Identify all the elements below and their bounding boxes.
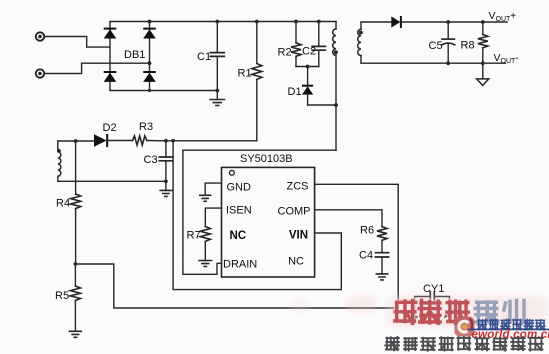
node: rail/C2 xyxy=(317,20,321,24)
ground: secondary output (open triangle) xyxy=(482,63,484,79)
resistor R1 xyxy=(256,22,258,141)
diode DB1 bottom-right xyxy=(143,71,156,73)
resistor R2 xyxy=(295,22,297,67)
input terminal J2 (AC neutral) xyxy=(36,69,44,77)
wire: VCC node to R1 bottom xyxy=(166,140,257,142)
diode D1 (clamp, pointing up) xyxy=(302,85,313,87)
wire: DRAIN pin to primary bottom xyxy=(183,150,336,274)
polarity dot: primary xyxy=(334,50,338,54)
diode D2 xyxy=(94,134,107,146)
wire: divider tap to ZCS pin xyxy=(75,184,398,308)
pin-1 marker circle xyxy=(230,170,235,175)
ground: C4 xyxy=(376,274,389,280)
capacitor C4 xyxy=(381,240,383,274)
wire: output + rail to VOUT+ xyxy=(401,21,507,23)
capacitor C5 (output, polarized) xyxy=(447,22,449,63)
wire: CY1 right lead xyxy=(434,297,449,312)
wire: D1 anode to primary bottom xyxy=(308,104,336,106)
wire: CY1 left lead xyxy=(415,297,431,316)
node: C3 ground / aux bottom xyxy=(164,179,168,183)
earth arrow: CY1 left xyxy=(411,315,418,321)
watermark text: Shepin He Tianxian Sheji Zhuanjia (RF and antenna design experts) xyxy=(385,337,399,350)
resistor R8 xyxy=(482,22,484,63)
wire: bridge right branch xyxy=(149,22,151,91)
wire: aux top to D2 xyxy=(58,140,94,142)
ground: IC GND pin xyxy=(199,195,212,201)
underline xyxy=(468,329,549,331)
node: aux top / R4 divider xyxy=(74,139,78,143)
earth arrow: CY1 right xyxy=(444,311,452,319)
op-amp U1: controller IC SY50103B xyxy=(222,167,315,277)
resistor R4 xyxy=(75,141,77,264)
node: VCC/VIN branch xyxy=(171,139,175,143)
polarity dot: aux winding xyxy=(57,149,61,153)
node: bottom rail / bridge right xyxy=(148,89,151,92)
ground: R7 xyxy=(198,261,212,267)
wire: AC input 2 to bridge right branch xyxy=(44,63,149,73)
watermark glow xyxy=(386,295,548,328)
resistor R7 xyxy=(200,227,210,242)
node: VCC/C3 xyxy=(164,139,168,143)
wire: output - rail to VOUT- xyxy=(361,62,506,64)
ground: C3 / aux return xyxy=(159,190,172,196)
ground: primary bulk xyxy=(209,100,225,106)
node: rail/R1 xyxy=(255,20,259,24)
input terminal J1 (AC line) xyxy=(36,32,44,40)
wire: bridge left branch xyxy=(109,22,111,91)
transformer primary winding T1 xyxy=(335,22,337,30)
node: snubber bottom / D1 cathode xyxy=(306,65,310,69)
wire: COMP pin to R6 xyxy=(315,210,382,227)
capacitor C3 xyxy=(165,141,167,191)
node: rail/R2 xyxy=(294,20,298,24)
resistor R6 xyxy=(377,227,387,241)
wire: aux bottom to C3 ground node xyxy=(58,180,166,182)
wire: secondary top to output diode xyxy=(361,21,391,23)
diode DB1 top-left xyxy=(104,28,117,30)
transformer secondary winding T1 xyxy=(360,22,362,29)
wire: ISEN pin to R7 xyxy=(205,208,221,226)
watermark text: Yi Di Tuo Pei Xun (red training brand) xyxy=(395,301,416,324)
node: bottom rail / C1 / ground xyxy=(215,89,219,93)
wire: ground stem xyxy=(216,91,218,100)
wire: D1 leads xyxy=(307,67,309,106)
transformer auxiliary winding xyxy=(57,141,59,152)
wire: R3 to VCC node xyxy=(147,140,166,142)
wire: rectified + rail xyxy=(110,21,336,23)
node: primary bottom / D1 xyxy=(334,103,338,107)
node: rail/C1 xyxy=(215,20,219,24)
diode DB1 bottom-left xyxy=(104,71,117,73)
node: bridge right branch AC junction xyxy=(148,61,152,65)
node: rail / bridge right xyxy=(148,20,152,24)
node: Vout-/C5 xyxy=(446,61,450,65)
logo: EEWorld badge xyxy=(455,317,475,337)
wire: AC input 1 to bridge left branch xyxy=(44,37,110,48)
ground: R5 xyxy=(69,331,83,337)
capacitor C1 xyxy=(216,22,218,91)
polarity dot: secondary xyxy=(359,31,363,35)
wire: VIN pin loop to VCC node xyxy=(173,141,341,290)
wire: GND pin to ground xyxy=(205,183,221,195)
node: Vout+/R8 xyxy=(481,20,485,24)
wire: bridge bottom rail xyxy=(110,90,217,92)
node: Vout-/R8/ground xyxy=(481,61,485,65)
node: R4/R5 divider tap xyxy=(74,262,78,266)
resistor R5 xyxy=(74,264,76,331)
wire: R2-C2 bottom join xyxy=(296,66,319,68)
diode DB1 top-right xyxy=(143,28,156,30)
capacitor C2 xyxy=(318,22,320,67)
resistor R3 xyxy=(107,140,132,142)
diode D3 (output rectifier) xyxy=(391,16,400,27)
watermark text: Dianzi Gongcheng Shijie (EEWorld name, navy) xyxy=(478,319,487,329)
node: Vout+/C5 xyxy=(446,20,450,24)
